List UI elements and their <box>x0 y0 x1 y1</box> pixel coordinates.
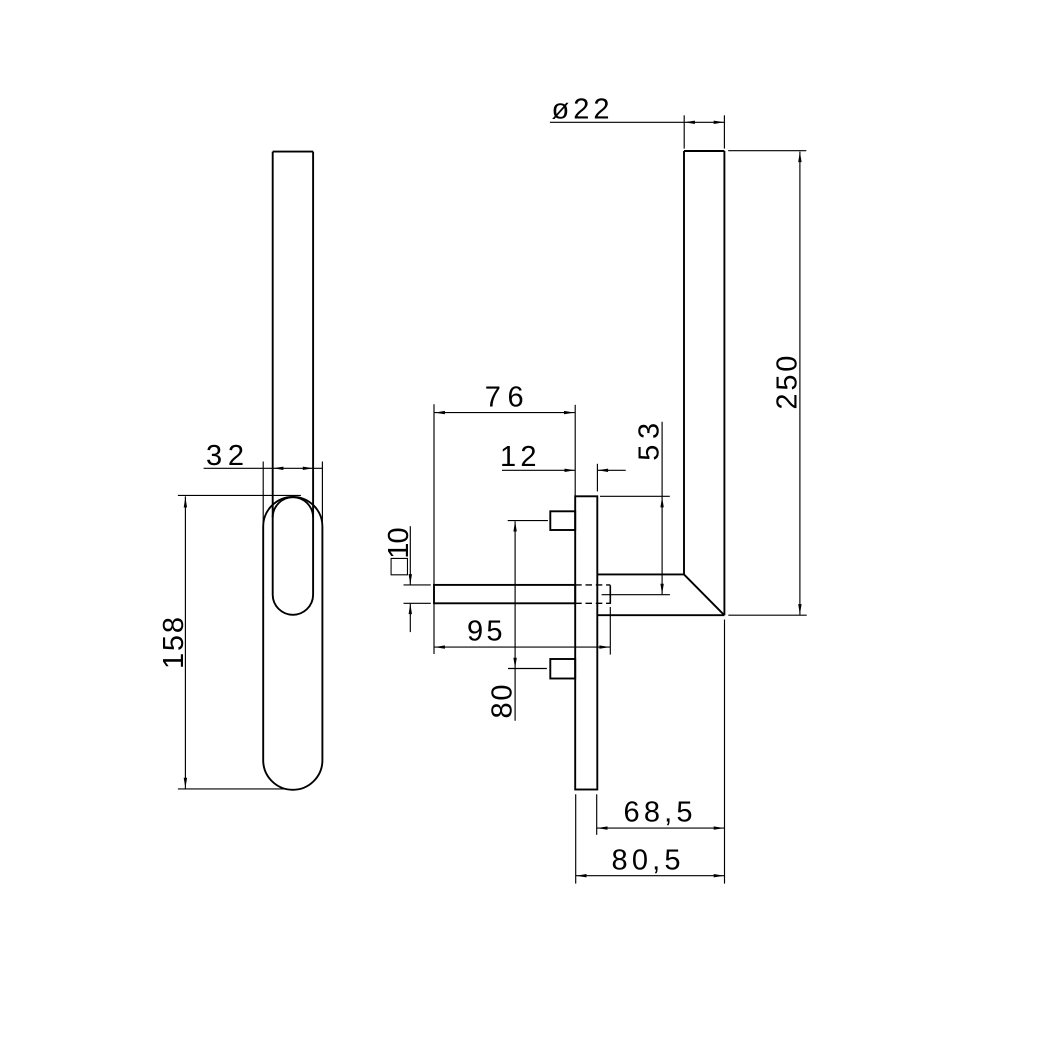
svg-text:80: 80 <box>486 685 518 719</box>
dimension 158 (backplate height) <box>178 495 301 789</box>
top fixing screw side view <box>550 511 575 530</box>
dimension 95 (spindle total length) <box>434 607 610 655</box>
handle lever side view (L-shaped bar with mitred corner) <box>597 151 724 615</box>
bottom fixing screw side view <box>550 659 575 679</box>
dimension 250 (lever length) <box>728 151 807 616</box>
dimension square 10 (spindle size) <box>404 526 431 632</box>
lever handle front view (stem with rounded lower end) <box>273 152 313 615</box>
backplate side view <box>575 496 597 789</box>
square spindle hidden inside plate (dashed) <box>575 585 610 603</box>
svg-text:ø22: ø22 <box>552 94 610 126</box>
mitre line of lever bend <box>684 574 724 615</box>
dimension 80,5 (plate front to lever outer face) <box>576 794 725 883</box>
dimension 68,5 (plate back to lever outer face) <box>597 620 725 884</box>
square spindle (visible part) <box>434 585 575 603</box>
dimension 53 (plate top to spindle axis) <box>600 422 670 595</box>
rounded top of lever recess <box>273 497 313 517</box>
svg-text:250: 250 <box>772 356 804 410</box>
dimension 76 (spindle exposed length) <box>434 404 575 654</box>
dimension 12 (backplate thickness) <box>502 464 626 492</box>
dimension Ø22 (lever bar thickness) <box>550 115 725 148</box>
spindle end face behind neck <box>609 585 611 604</box>
svg-text:158: 158 <box>158 617 190 669</box>
dimension 32 (lever width) <box>204 462 323 528</box>
dimension 80 (screw spacing) <box>508 521 548 721</box>
svg-text:68,5: 68,5 <box>624 797 693 829</box>
svg-text:□10: □10 <box>383 527 415 575</box>
backplate (stadium outline) front view <box>263 497 322 790</box>
svg-text:80,5: 80,5 <box>612 844 681 876</box>
